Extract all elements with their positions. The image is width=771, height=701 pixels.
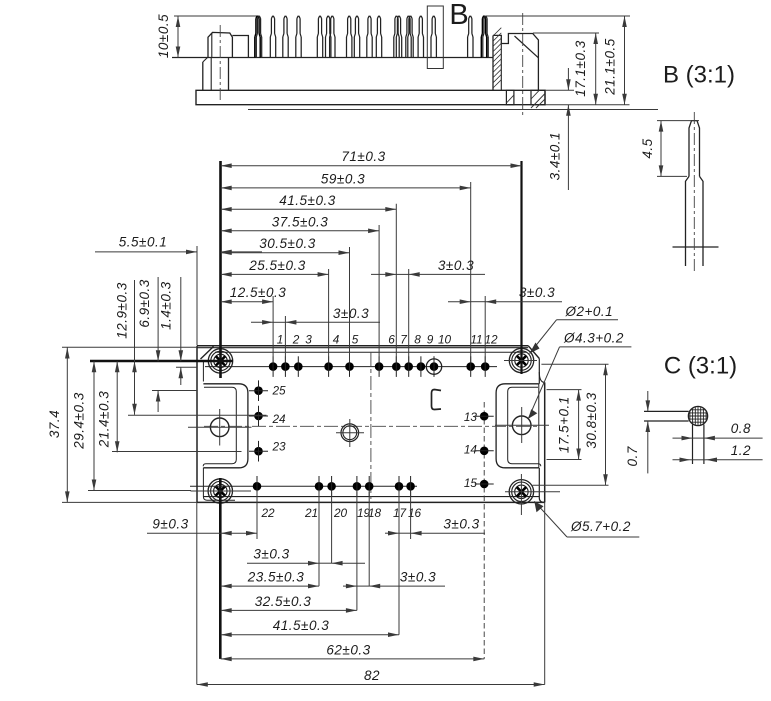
pin 19 [353,482,362,491]
body bottom edge [197,501,545,503]
pin 1 [269,362,278,371]
detail B centerline [693,112,695,272]
pin 16 [406,482,415,491]
top left hole horizontal reference line [90,360,233,363]
pin 14 [480,447,489,456]
top left chamfer [201,347,214,360]
svg-text:41.5±0.3: 41.5±0.3 [273,618,329,633]
30.8 lower extension [532,484,608,486]
body left edge extension line [196,246,198,345]
body left edge extension line bottom [196,502,198,684]
svg-text:3±0.3: 3±0.3 [438,258,474,273]
svg-text:37.4: 37.4 [47,410,62,438]
svg-text:12: 12 [484,333,498,347]
top pin row line [205,366,497,368]
pin 2 [281,362,290,371]
right tab inner recess [508,387,541,466]
bottom pin row line [190,485,417,487]
svg-text:21.1±0.5: 21.1±0.5 [603,38,618,95]
svg-text:16: 16 [408,506,422,520]
pin 4 extension line [328,269,330,362]
boss rib diagonal [515,36,539,58]
svg-text:B (3:1): B (3:1) [663,62,735,89]
svg-text:25.5±0.3: 25.5±0.3 [248,258,305,273]
dimension 32.5±0.3 [221,609,357,611]
svg-text:7: 7 [400,333,407,347]
svg-text:3±0.3: 3±0.3 [400,570,436,585]
bottom left hole vertical reference line [219,478,222,659]
pin 10 [430,362,439,371]
pin 16 extension line [410,492,412,539]
pin 21 extension line [318,492,320,586]
pin 18 [365,482,374,491]
svg-text:37.5±0.3: 37.5±0.3 [272,214,328,229]
dimension 29.4±0.3 [93,361,95,490]
dimension 10±0.5 [177,16,179,58]
svg-text:41.5±0.3: 41.5±0.3 [279,193,335,208]
vertical centerline [370,352,372,499]
top right chamfer [528,346,539,359]
svg-text:9: 9 [427,333,434,347]
dimension 37.5±0.3 [221,230,379,232]
svg-text:3±0.3: 3±0.3 [519,285,555,300]
pin top reference line left [174,15,258,17]
17.5 upper extension [547,389,582,391]
pin 9 [417,362,426,371]
svg-text:59±0.3: 59±0.3 [321,171,365,186]
detail B pin left lower [686,176,690,266]
pin 24 [254,412,263,421]
svg-text:Ø2+0.1: Ø2+0.1 [565,304,614,319]
side view case top surface [172,57,493,59]
pin 2 extension line [284,316,286,362]
boss top extension [533,32,599,34]
pin 22 extension line [256,492,258,539]
body top inner line [215,351,527,353]
section C marker [432,390,442,410]
dimension 30.8±0.3 [605,364,607,485]
svg-text:10: 10 [438,333,452,347]
left raised block [232,36,248,58]
side view right hatched wall [493,34,538,91]
svg-text:12.9±0.3: 12.9±0.3 [114,282,129,338]
body top edge second line [197,347,528,349]
mounting hole bottom left Ø5.7 [208,479,232,503]
svg-text:0.7: 0.7 [625,446,640,466]
svg-text:3.4±0.1: 3.4±0.1 [548,132,563,180]
svg-text:9±0.3: 9±0.3 [152,517,188,532]
svg-text:1: 1 [277,333,284,347]
right inner contour [538,384,540,468]
dimension 21.4±0.3 [116,361,118,452]
mounting hole top right Ø5.7 [509,348,533,372]
detail C lead right line [703,425,705,465]
post inner line [210,58,212,91]
svg-text:21.4±0.3: 21.4±0.3 [96,391,111,448]
svg-text:3: 3 [305,333,312,347]
body right edge [544,382,546,502]
left inner contour upper [202,361,204,382]
pins 13-15 dashed column line [483,402,485,659]
case left edge below deck [228,58,230,91]
pin 23 [254,447,263,456]
dimension 62±0.3 [221,658,485,660]
svg-text:71±0.3: 71±0.3 [341,149,385,164]
svg-text:29.4±0.3: 29.4±0.3 [71,392,86,449]
body bottom inner line [203,496,539,498]
body bottom edge extension left [62,501,197,503]
pin 10 circle Ø2 [426,359,441,374]
svg-text:17.1±0.3: 17.1±0.3 [573,40,588,96]
right clamp tab [496,384,539,468]
dimension 9±0.3 [221,532,257,534]
pin 7 [392,362,401,371]
svg-text:30.8±0.3: 30.8±0.3 [584,392,599,448]
svg-text:12.5±0.3: 12.5±0.3 [230,285,286,300]
dimension 3±0.3 pins 21-20 [247,562,319,564]
dimension 3±0.3 pins 19-18 [343,585,357,587]
dimension 0.7 [647,391,649,411]
pin 8 extension line [408,269,410,362]
bottom right hole vertical crosshair [520,474,522,515]
dimension 3.4±0.1 [567,68,569,90]
dimension 6.9±0.3 [157,277,159,361]
body left edge [196,346,198,503]
pin 1 extension line [272,296,274,362]
left standoff hex head [208,32,232,57]
svg-text:4.5: 4.5 [640,138,655,158]
pin 20 extension line [331,492,333,563]
baseplate [196,90,545,104]
svg-text:5: 5 [352,333,359,347]
pin 12 [481,362,490,371]
dimension 3±0.3 pins 17-16 [385,532,399,534]
17.5 lower extension [547,459,582,461]
pin 22 [253,482,262,491]
dimension 3±0.3 pins 11-12 [448,301,471,303]
pin 11 extension line [470,182,472,362]
dimension 1.4±0.3 [180,277,182,361]
pin 11 [466,362,475,371]
pin 4 [324,362,333,371]
bottom left hole horizontal crosshair [191,490,252,492]
svg-text:22: 22 [260,506,275,520]
pin 6 [375,362,384,371]
svg-text:8: 8 [414,333,421,347]
svg-text:14: 14 [464,443,478,457]
dimension 25.5±0.3 [221,273,329,275]
top right corner step arc [539,372,544,382]
detail C lead left line [692,425,694,465]
pin 25 [254,386,263,395]
svg-text:17.5+0.1: 17.5+0.1 [557,396,572,453]
center mark [341,424,359,442]
hex facet line [211,33,213,57]
svg-text:10±0.5: 10±0.5 [156,14,171,58]
dimension 17.5+0.1 [578,390,580,460]
pin 5 extension line [349,247,351,362]
dimension 41.5±0.3 bottom [221,634,399,636]
svg-text:62±0.3: 62±0.3 [326,642,370,657]
dimension 0.8 [673,437,693,439]
12.9 lower extension [128,414,267,416]
6.9 lower extension [152,390,197,392]
pin 21 [315,482,324,491]
dimension 59±0.3 [221,187,471,189]
top right hole horizontal crosshair [504,360,537,362]
dimension 3±0.3 pins 7-8 [371,273,396,275]
svg-text:2: 2 [292,333,300,347]
svg-text:5.5±0.1: 5.5±0.1 [119,235,167,250]
pin 19 extension line [356,492,358,610]
svg-text:82: 82 [364,668,380,683]
detail C flat lower line [644,420,689,422]
pin 15 [480,480,489,489]
base clamp hatched blocks [506,90,514,104]
left inner contour lower [203,468,235,500]
dimension 17.1±0.3 [595,33,597,105]
detail C pin section circle [688,406,707,425]
svg-text:15: 15 [464,476,478,490]
svg-text:6.9±0.3: 6.9±0.3 [137,279,152,327]
svg-text:C (3:1): C (3:1) [664,353,737,380]
svg-text:13: 13 [464,410,478,424]
svg-text:1.4±0.3: 1.4±0.3 [159,281,174,329]
svg-text:0.8: 0.8 [731,421,751,436]
pin 8 [404,362,413,371]
pin 13 [480,412,489,421]
side view pins [254,37,256,58]
body right edge extension line bottom [544,502,546,684]
mounting hole top left Ø5.7 [208,349,232,373]
bottom right corner step [539,468,544,502]
pin top reference line right [486,15,630,17]
dimension 71±0.3 [221,165,522,167]
svg-text:25: 25 [272,384,287,398]
left clamp tab [203,384,248,468]
dimension 37.4 [66,348,68,503]
base top extension [545,89,574,91]
dimension 23.5±0.3 [221,585,319,587]
top left hole vertical reference line [219,161,222,378]
pin 3 [294,362,303,371]
1.4 lower extension [176,366,197,368]
svg-text:24: 24 [272,412,287,426]
svg-text:3±0.3: 3±0.3 [333,306,369,321]
pin 12 extension line [484,296,486,362]
base bottom extension [545,104,630,106]
horizontal centerline [204,425,540,427]
detail B pin right lower [700,176,704,266]
29.4 lower extension [88,490,191,492]
detail B box [427,6,443,69]
left standoff centerline [219,25,221,100]
post left edge [202,62,204,90]
body top edge extension left [62,346,197,348]
dimension 12.9±0.3 [134,361,136,415]
svg-text:3±0.3: 3±0.3 [443,517,479,532]
pin 7 extension line [395,204,397,362]
pin 5 [345,362,354,371]
pin 17 extension line [398,492,400,635]
dimension 3±0.3 pins 1-2 [251,321,273,323]
mounting hole bottom right Ø5.7 [509,480,533,504]
svg-text:23.5±0.3: 23.5±0.3 [247,570,304,585]
dimension 21.1±0.5 [624,16,626,105]
dimension 12.5±0.3 [221,301,273,303]
30.8 upper extension [541,363,608,365]
svg-text:3±0.3: 3±0.3 [253,547,289,562]
svg-text:1.2: 1.2 [731,443,751,458]
dimension 41.5±0.3 [221,208,397,210]
svg-text:Ø4.3+0.2: Ø4.3+0.2 [563,331,624,346]
right tab hole Ø4.3 [512,416,531,435]
dimension 30.5±0.3 [221,252,350,254]
pin 18 extension line [368,492,370,586]
left tab inner recess [203,387,236,466]
svg-text:23: 23 [272,440,287,454]
dimension 1.2 [673,459,691,461]
21.4 lower extension [112,451,242,453]
svg-text:11: 11 [470,333,482,347]
dimension 5.5±0.1 [95,251,197,253]
left tab hole Ø4.3 [210,418,229,437]
svg-text:20: 20 [333,506,348,520]
svg-text:Ø5.7+0.2: Ø5.7+0.2 [570,519,631,534]
baseplate lower reference line [248,109,658,111]
svg-text:6: 6 [388,333,395,347]
svg-text:17: 17 [393,506,407,520]
detail C flat upper line [644,410,689,412]
top right corner step vertical [538,359,540,384]
right boss centerline [522,13,524,115]
detail B shoulder extension [657,175,687,177]
body top edge [197,345,528,347]
pin 20 [327,482,336,491]
detail B surface line [673,246,719,248]
svg-text:32.5±0.3: 32.5±0.3 [255,594,311,609]
detail B tip top extension [657,120,699,122]
svg-text:4: 4 [333,333,340,347]
detail B pin tip [689,121,700,177]
svg-text:21: 21 [304,506,318,520]
bottom right hole horizontal crosshair [505,491,560,493]
pin 17 [395,482,404,491]
svg-text:18: 18 [368,506,382,520]
post flare [203,58,208,63]
top right hole vertical reference line [520,161,522,374]
svg-text:B: B [449,0,468,31]
dimension 82 [197,684,545,686]
svg-text:30.5±0.3: 30.5±0.3 [259,236,315,251]
pin 6 extension line [378,225,380,362]
dimension 4.5 [660,121,662,177]
